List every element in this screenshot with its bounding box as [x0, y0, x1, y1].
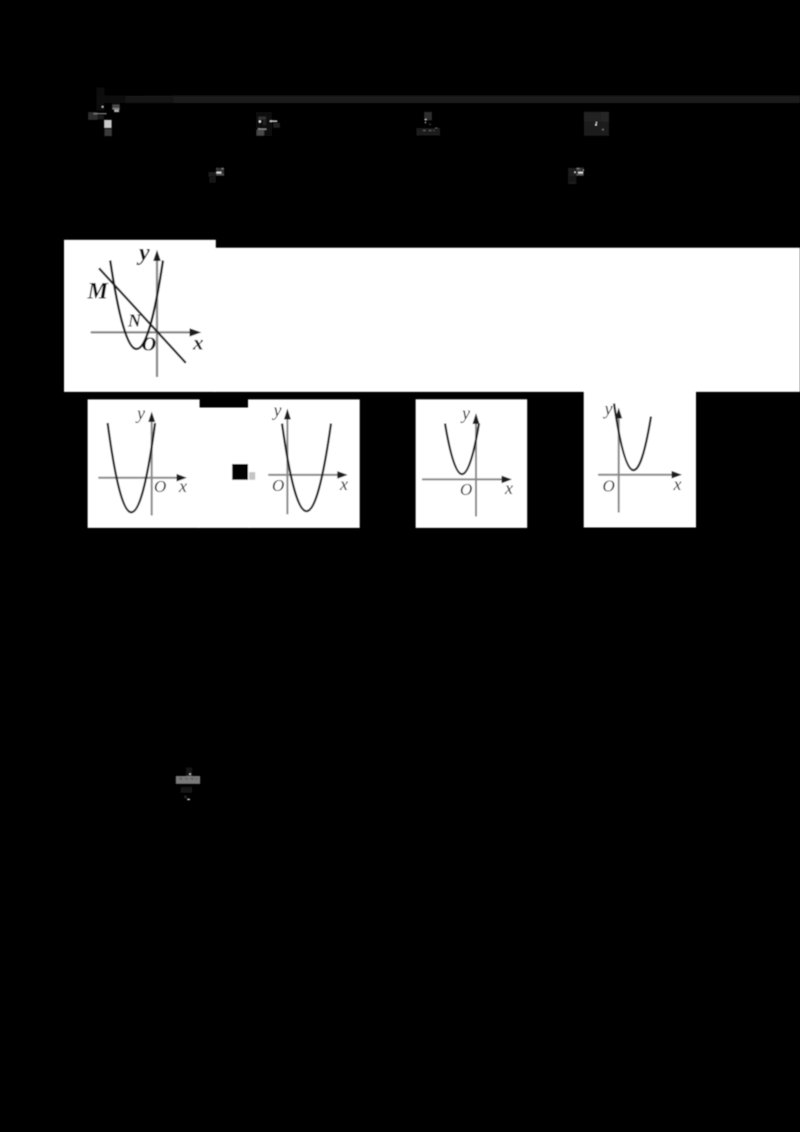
- svg-text:y: y: [460, 403, 470, 423]
- svg-text:y: y: [135, 403, 145, 423]
- x-axis: [91, 331, 191, 333]
- white box: option D: [584, 390, 696, 527]
- line MN: [99, 268, 186, 363]
- svg-text:M: M: [87, 279, 110, 304]
- x-axis: [98, 477, 178, 479]
- y-axis: [151, 419, 153, 516]
- white box: M/N graph image: [64, 240, 216, 392]
- white box: option C: [416, 399, 528, 528]
- parabola D: [614, 404, 651, 471]
- faint underline band row 1: [104, 96, 800, 104]
- svg-text:O: O: [154, 477, 166, 496]
- y-axis: [156, 260, 158, 377]
- white box: option A: [88, 399, 200, 528]
- grey square marker between A and B: [249, 472, 255, 480]
- svg-text:N: N: [127, 310, 142, 330]
- svg-text:y: y: [603, 399, 613, 419]
- fragment F1 (formula x = -b/2a remnant): [88, 88, 120, 136]
- svg-text:O: O: [142, 333, 156, 355]
- fragment F2 (formula remnant, option row): [256, 112, 280, 136]
- fragment F6 (= 3/4 badge remnant left): [208, 168, 224, 183]
- parabola A: [108, 423, 156, 512]
- svg-text:x: x: [673, 474, 682, 494]
- svg-text:y: y: [136, 240, 150, 266]
- y-axis: [618, 415, 620, 513]
- fragment F7 (grey answer bar, lower): [176, 767, 200, 800]
- fragment F4 (formula remnant): [584, 112, 609, 136]
- parabola C: [445, 424, 479, 475]
- svg-text:x: x: [339, 474, 348, 494]
- svg-text:x: x: [504, 478, 513, 498]
- svg-text:O: O: [272, 476, 284, 495]
- x-axis: [422, 478, 503, 480]
- svg-text:x: x: [178, 476, 187, 496]
- fragment F3 (formula remnant): [416, 112, 440, 136]
- fragment F5 (= 3/4 badge remnant right): [568, 168, 584, 185]
- white box: option B: [248, 399, 360, 528]
- svg-text:O: O: [603, 477, 615, 496]
- svg-text:x: x: [192, 331, 204, 355]
- parabola B: [282, 424, 331, 512]
- x-axis: [268, 474, 338, 476]
- black square marker between A and B: [232, 464, 248, 480]
- parabola: [110, 260, 163, 349]
- y-axis: [286, 418, 288, 515]
- svg-text:y: y: [272, 400, 282, 420]
- white box: wide blank row: [214, 248, 800, 392]
- x-axis: [598, 474, 673, 476]
- svg-text:O: O: [460, 480, 472, 499]
- white box: between A and B: [198, 408, 249, 528]
- y-axis: [475, 421, 477, 517]
